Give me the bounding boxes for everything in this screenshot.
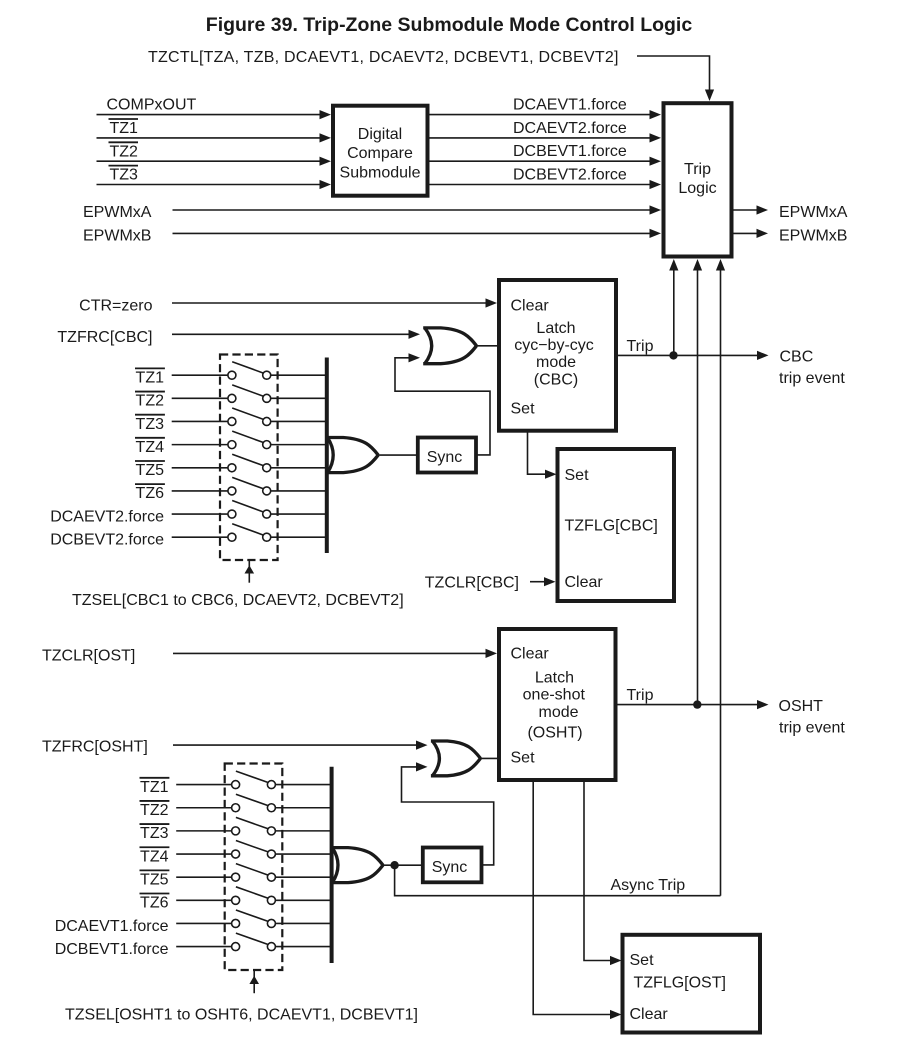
wire TZFRC[OSHT] to OR G3 [173, 741, 428, 750]
wire DCAEVT1.force into Trip Logic [428, 110, 662, 119]
block TZFLG[OST] [623, 935, 761, 1033]
svg-text:mode: mode [538, 704, 578, 721]
wire switch OSHT3 to bus [275, 830, 331, 832]
wire G1 output to CBC latch [477, 345, 500, 347]
wire TZCLR[OST] to OSHT latch Clear [173, 649, 497, 658]
svg-text:Trip: Trip [627, 338, 654, 355]
svg-text:TZ1: TZ1 [140, 779, 169, 796]
block Sync (CBC) [418, 438, 476, 473]
or-gate G3 (OSHT set) [431, 741, 481, 776]
svg-text:Latch: Latch [535, 669, 574, 686]
wire G3 output to OSHT latch Set [481, 757, 500, 759]
wire EPWMxB output [732, 229, 769, 238]
wire DCAEVT2.force to switch CBC7 [172, 513, 228, 515]
svg-text:TZ3: TZ3 [136, 416, 165, 433]
or-gate G2 (CBC 8-input) [326, 438, 378, 473]
wire TZ1 to switch CBC1 [172, 374, 228, 376]
label TZ4 (CBC row 4) [135, 438, 165, 456]
svg-text:Sync: Sync [427, 449, 463, 466]
wire DCBEVT2.force into Trip Logic [428, 180, 662, 189]
svg-text:CBC: CBC [780, 349, 814, 366]
switch CBC4 [228, 431, 271, 449]
svg-text:Logic: Logic [678, 180, 716, 197]
svg-text:trip event: trip event [779, 370, 845, 387]
svg-text:COMPxOUT: COMPxOUT [107, 97, 197, 114]
svg-text:TZFRC[OSHT]: TZFRC[OSHT] [42, 739, 148, 756]
svg-text:Trip: Trip [684, 161, 711, 178]
wire switch CBC2 to bus [271, 397, 327, 399]
svg-text:Sync: Sync [432, 859, 468, 876]
or-gate G1 (CBC set) [423, 328, 476, 364]
wire TZ2 into Digital Compare [97, 157, 332, 166]
wire OSHT latch Set to TZFLG[OST] Set [584, 780, 622, 965]
wire Async Trip [395, 865, 721, 896]
label TZ1 (OSHT row 1) [140, 778, 170, 796]
svg-text:Clear: Clear [565, 574, 604, 591]
svg-text:Compare: Compare [347, 145, 413, 162]
svg-text:DCAEVT1.force: DCAEVT1.force [513, 97, 627, 114]
label TZ2 (CBC row 2) [135, 392, 165, 410]
block U2 Trip Logic [664, 103, 732, 256]
wire DCAEVT1.force to switch OSHT7 [176, 922, 231, 924]
block Sync (OSHT) [423, 848, 482, 883]
wire switch CBC5 to bus [271, 467, 327, 469]
svg-text:EPWMxB: EPWMxB [83, 228, 151, 245]
svg-text:TZ3: TZ3 [140, 825, 169, 842]
switch CBC8 [228, 524, 271, 542]
wire switch CBC3 to bus [271, 420, 327, 422]
switch OSHT4 [232, 841, 276, 859]
wire OSHT Sync feedback to G3 [402, 762, 494, 865]
wire switch OSHT1 to bus [275, 784, 331, 786]
block CBC latch (cyc-by-cyc) [499, 280, 616, 431]
junction OSHT trip [693, 700, 701, 708]
wire switch CBC7 to bus [271, 513, 327, 515]
svg-text:Figure 39. Trip-Zone Submodule: Figure 39. Trip-Zone Submodule Mode Cont… [206, 14, 693, 36]
label TZ3 (active low) [109, 166, 139, 184]
svg-text:Digital: Digital [358, 126, 402, 143]
wire TZ4 to switch CBC4 [172, 444, 228, 446]
switch CBC1 [228, 362, 271, 380]
switch CBC6 [228, 477, 271, 495]
wire switch CBC1 to bus [271, 374, 327, 376]
wire Async Trip to Trip Logic [716, 259, 725, 896]
svg-text:Clear: Clear [630, 1006, 669, 1023]
wire CTR=zero to CBC latch Clear [172, 298, 497, 307]
switch OSHT8 [232, 933, 276, 951]
svg-text:TZFRC[CBC]: TZFRC[CBC] [57, 329, 152, 346]
wire TZ2 to switch OSHT2 [176, 807, 231, 809]
label TZ3 (CBC row 3) [135, 415, 165, 433]
switch OSHT5 [232, 864, 276, 882]
wire TZ4 to switch OSHT4 [176, 853, 231, 855]
svg-text:TZSEL[CBC1 to CBC6, DCAEVT2, D: TZSEL[CBC1 to CBC6, DCAEVT2, DCBEVT2] [72, 592, 404, 609]
switch OSHT3 [232, 817, 276, 835]
wire OSHT Trip output [616, 700, 769, 709]
wire TZ3 to switch CBC3 [172, 420, 228, 422]
wire COMPxOUT into Digital Compare [97, 110, 332, 119]
svg-text:DCAEVT2.force: DCAEVT2.force [50, 508, 164, 525]
svg-text:TZ3: TZ3 [110, 167, 139, 184]
svg-text:one-shot: one-shot [523, 686, 586, 703]
switch CBC5 [228, 454, 271, 472]
wire TZ5 to switch CBC5 [172, 467, 228, 469]
wire DCBEVT1.force to switch OSHT8 [176, 946, 231, 948]
wire EPWMxA into Trip Logic [173, 205, 662, 214]
wire TZ6 to switch CBC6 [172, 490, 228, 492]
wire TZFRC[CBC] to OR G1 [172, 330, 420, 339]
wire TZ1 into Digital Compare [97, 133, 332, 142]
svg-text:Set: Set [630, 952, 655, 969]
svg-text:DCBEVT1.force: DCBEVT1.force [513, 143, 627, 160]
svg-text:(OSHT): (OSHT) [527, 724, 582, 741]
label TZ3 (OSHT row 3) [140, 824, 170, 842]
wire DCAEVT2.force into Trip Logic [428, 133, 662, 142]
svg-text:DCBEVT2.force: DCBEVT2.force [50, 531, 164, 548]
wire CBC Trip output [616, 351, 769, 360]
arrow TZSEL select (CBC) [245, 560, 255, 583]
switch OSHT6 [232, 887, 276, 905]
svg-text:DCAEVT2.force: DCAEVT2.force [513, 120, 627, 137]
svg-text:(CBC): (CBC) [534, 372, 578, 389]
label TZ6 (CBC row 6) [135, 484, 165, 502]
svg-text:TZ2: TZ2 [110, 143, 139, 160]
svg-text:Async Trip: Async Trip [611, 877, 686, 894]
svg-text:mode: mode [536, 354, 576, 371]
svg-text:Set: Set [511, 749, 536, 766]
junction CBC trip [669, 351, 677, 359]
svg-text:Clear: Clear [511, 298, 550, 315]
label TZ2 (active low) [109, 142, 139, 160]
arrow TZSEL select (OSHT) [249, 971, 259, 994]
switch OSHT7 [232, 910, 276, 928]
svg-text:Set: Set [511, 401, 536, 418]
svg-text:TZ2: TZ2 [136, 393, 165, 410]
switch box CBC (dashed) [220, 355, 278, 561]
wire EPWMxA output [732, 205, 769, 214]
svg-text:Latch: Latch [536, 320, 575, 337]
svg-text:EPWMxA: EPWMxA [779, 204, 848, 221]
label TZ4 (OSHT row 4) [140, 847, 170, 865]
wire EPWMxB into Trip Logic [173, 229, 662, 238]
wire TZ2 to switch CBC2 [172, 397, 228, 399]
svg-text:Trip: Trip [627, 687, 654, 704]
svg-text:DCBEVT2.force: DCBEVT2.force [513, 167, 627, 184]
wire TZ3 to switch OSHT3 [176, 830, 231, 832]
wire switch CBC6 to bus [271, 490, 327, 492]
label OSHT trip event [779, 698, 846, 737]
svg-text:Submodule: Submodule [340, 165, 421, 182]
label TZ5 (CBC row 5) [135, 461, 165, 479]
wire TZ5 to switch OSHT5 [176, 876, 231, 878]
svg-text:trip event: trip event [779, 720, 845, 737]
svg-text:TZ1: TZ1 [110, 120, 139, 137]
switch box OSHT (dashed) [225, 764, 283, 971]
switch OSHT1 [232, 771, 276, 789]
svg-text:TZ2: TZ2 [140, 802, 169, 819]
wire TZ1 to switch OSHT1 [176, 784, 231, 786]
wire G4 to Sync (OSHT) [383, 864, 423, 866]
svg-text:DCAEVT1.force: DCAEVT1.force [55, 918, 169, 935]
wire switch CBC8 to bus [271, 536, 327, 538]
label TZ2 (OSHT row 2) [140, 801, 170, 819]
svg-text:TZ4: TZ4 [140, 848, 169, 865]
wire TZ3 into Digital Compare [97, 180, 332, 189]
label TZ5 (OSHT row 5) [140, 870, 170, 888]
svg-text:TZ5: TZ5 [136, 462, 165, 479]
svg-text:TZ6: TZ6 [140, 895, 169, 912]
wire G2 to Sync (CBC) [378, 454, 418, 456]
wire switch OSHT2 to bus [275, 807, 331, 809]
svg-text:TZCTL[TZA, TZB, DCAEVT1, DCAEV: TZCTL[TZA, TZB, DCAEVT1, DCAEVT2, DCBEVT… [148, 49, 619, 66]
svg-text:EPWMxB: EPWMxB [779, 228, 847, 245]
wire DCBEVT2.force to switch CBC8 [172, 536, 228, 538]
label TZ6 (OSHT row 6) [140, 894, 170, 912]
svg-text:EPWMxA: EPWMxA [83, 204, 152, 221]
svg-text:cyc−by-cyc: cyc−by-cyc [514, 337, 594, 354]
wire switch OSHT6 to bus [275, 899, 331, 901]
svg-text:Set: Set [565, 467, 590, 484]
svg-text:TZ1: TZ1 [136, 370, 165, 387]
bus bar CBC [325, 358, 329, 554]
wire switch OSHT4 to bus [275, 853, 331, 855]
wire CBC Sync feedback to G1 [395, 353, 490, 455]
label CBC trip event [779, 349, 845, 388]
wire OSHT latch to TZFLG[OST] Clear [533, 780, 621, 1019]
wire DCBEVT1.force into Trip Logic [428, 157, 662, 166]
or-gate G4 (OSHT 8-input) [331, 848, 383, 883]
svg-text:TZCLR[OST]: TZCLR[OST] [42, 648, 135, 665]
wire OSHT trip to Trip Logic [693, 259, 702, 705]
svg-text:DCBEVT1.force: DCBEVT1.force [55, 941, 169, 958]
svg-text:TZSEL[OSHT1 to OSHT6, DCAEVT1,: TZSEL[OSHT1 to OSHT6, DCAEVT1, DCBEVT1] [65, 1007, 418, 1024]
bus bar OSHT [330, 767, 334, 963]
switch CBC7 [228, 501, 271, 519]
block TZFLG[CBC] [558, 449, 675, 601]
wire switch OSHT7 to bus [275, 922, 331, 924]
wire CBC trip to Trip Logic [669, 259, 678, 355]
svg-text:TZFLG[CBC]: TZFLG[CBC] [565, 518, 658, 535]
switch OSHT2 [232, 794, 276, 812]
block U1 Digital Compare Submodule [333, 106, 428, 196]
svg-text:TZCLR[CBC]: TZCLR[CBC] [425, 575, 519, 592]
svg-text:Clear: Clear [511, 646, 550, 663]
svg-text:TZFLG[OST]: TZFLG[OST] [634, 975, 726, 992]
label TZ1 (active low) [109, 119, 139, 137]
wire TZCTL to Trip Logic top [637, 56, 714, 101]
wire TZ6 to switch OSHT6 [176, 899, 231, 901]
wire switch CBC4 to bus [271, 444, 327, 446]
switch CBC2 [228, 385, 271, 403]
svg-text:TZ6: TZ6 [136, 485, 165, 502]
wire switch OSHT8 to bus [275, 946, 331, 948]
block OSHT latch (one-shot) [499, 629, 616, 780]
wire TZCLR[CBC] to TZFLG Clear [530, 577, 556, 586]
svg-text:TZ4: TZ4 [136, 439, 165, 456]
svg-text:OSHT: OSHT [779, 698, 824, 715]
wire switch OSHT5 to bus [275, 876, 331, 878]
label TZ1 (CBC row 1) [135, 368, 165, 386]
switch CBC3 [228, 408, 271, 426]
junction OSHT async [390, 861, 398, 869]
svg-text:TZ5: TZ5 [140, 871, 169, 888]
wire CBC latch Set to TZFLG[CBC] [528, 431, 557, 479]
svg-text:CTR=zero: CTR=zero [79, 298, 152, 315]
